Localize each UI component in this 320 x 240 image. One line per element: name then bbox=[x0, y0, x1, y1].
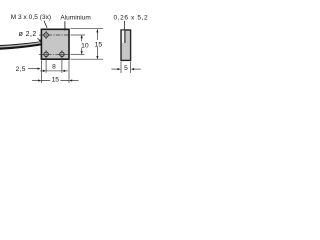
vertical crosshair + extension hole C bbox=[61, 50, 63, 72]
extension line hole A to dim 10 bbox=[71, 34, 85, 36]
svg-text:5: 5 bbox=[124, 65, 128, 72]
leader from Aluminium label to housing bbox=[64, 21, 66, 30]
dimension 15 right line bbox=[96, 29, 98, 59]
svg-text:ø 2,2: ø 2,2 bbox=[19, 31, 37, 38]
dimension 8 line bbox=[46, 70, 62, 72]
svg-text:0,26 x 5,2: 0,26 x 5,2 bbox=[114, 14, 149, 21]
extension line top right corner bbox=[71, 28, 104, 30]
vertical crosshair hole A bbox=[45, 31, 47, 39]
extension line body left edge down bbox=[40, 60, 42, 83]
svg-text:8: 8 bbox=[52, 63, 56, 70]
sensing slot gap (white) bbox=[122, 30, 124, 42]
dimension 15 bottom line bbox=[41, 80, 69, 82]
cable core highlight bbox=[0, 43, 41, 47]
extension line bottom right corner bbox=[71, 58, 104, 60]
sensing slot 0,26 x 5,2 bbox=[124, 30, 126, 43]
extension line hole C to dim 10 bbox=[71, 53, 85, 55]
mounting hole C (M3) bbox=[60, 52, 64, 56]
centerline through holes B C bbox=[39, 53, 70, 55]
front view housing (Aluminium body 15 x 15) bbox=[41, 29, 69, 59]
cable (ø 2,2) bbox=[0, 41, 42, 50]
crosshair ticks hole C bbox=[58, 51, 65, 58]
leader arrow 2,5 bbox=[28, 68, 38, 70]
dimension 10 line bbox=[81, 35, 83, 54]
extension line side view left edge bbox=[120, 62, 122, 74]
mounting hole A (M3) bbox=[44, 33, 48, 37]
svg-text:M 3 x 0,5 (3x): M 3 x 0,5 (3x) bbox=[11, 14, 51, 21]
crosshair ticks hole B bbox=[42, 51, 49, 58]
crosshair ticks hole A bbox=[42, 31, 49, 38]
leader arrow from ø 2,2 to cable bbox=[38, 38, 41, 41]
extension line side view right edge bbox=[130, 62, 132, 74]
side view housing bbox=[121, 30, 131, 60]
leader from 0,26 x 5,2 label to slot bbox=[123, 21, 125, 30]
svg-text:15: 15 bbox=[52, 76, 60, 83]
vertical crosshair + extension hole B bbox=[45, 50, 47, 72]
leader from M3 label to hole A bbox=[44, 21, 47, 28]
extension line body right edge down bbox=[68, 60, 70, 83]
svg-text:2,5: 2,5 bbox=[16, 66, 26, 73]
centerline through hole A bbox=[39, 34, 70, 36]
svg-text:Aluminium: Aluminium bbox=[60, 14, 90, 21]
mounting hole B (M3) bbox=[44, 52, 48, 56]
svg-text:15: 15 bbox=[95, 41, 103, 48]
dimension 5 arrows bbox=[111, 68, 119, 70]
svg-text:10: 10 bbox=[81, 42, 89, 49]
